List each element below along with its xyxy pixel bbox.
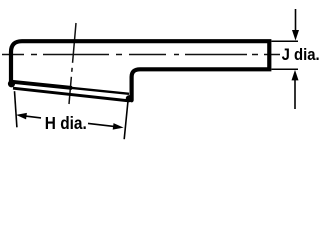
H dimension right segment with arrow — [88, 123, 124, 130]
rim upper line thin part — [68, 88, 129, 94]
svg-text:H dia.: H dia. — [45, 113, 87, 133]
H left extension line — [15, 91, 17, 127]
svg-text:J dia.: J dia. — [282, 45, 320, 64]
J bottom arrow — [292, 70, 299, 109]
J top extension line — [272, 40, 299, 42]
step bottom blob — [126, 95, 133, 102]
cap outline — [11, 41, 269, 100]
rim lower line — [13, 88, 130, 101]
H right extension line — [124, 101, 128, 139]
J top arrow — [292, 9, 299, 41]
J bottom extension line — [272, 68, 299, 70]
bottom-left corner blob — [8, 80, 15, 87]
vertical centerline — [69, 23, 76, 104]
horizontal centerline — [2, 54, 280, 56]
H dimension left segment with arrow — [16, 113, 41, 120]
rim upper line thick part — [11, 82, 72, 88]
